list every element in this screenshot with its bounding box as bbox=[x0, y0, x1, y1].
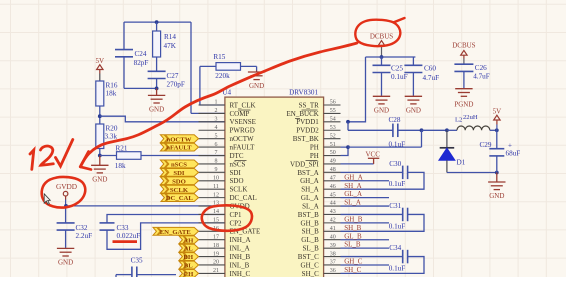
resistor R16 bbox=[96, 81, 104, 106]
svg-text:C60: C60 bbox=[424, 64, 436, 72]
net flag SDO bbox=[160, 177, 198, 186]
svg-text:BST_BK: BST_BK bbox=[293, 135, 319, 143]
wire pin13 GVDD bbox=[66, 205, 225, 207]
annotation arrowhead bbox=[80, 152, 91, 170]
wire C60 bottom lead bbox=[412, 73, 414, 96]
capacitor C35 bbox=[132, 267, 137, 278]
wire net GH_A bbox=[341, 180, 390, 182]
wire D1 gnd rail bbox=[447, 172, 497, 174]
svg-text:0.1uF: 0.1uF bbox=[391, 73, 408, 81]
svg-text:3: 3 bbox=[215, 117, 218, 123]
svg-text:SDO: SDO bbox=[230, 177, 244, 185]
svg-text:52: 52 bbox=[330, 133, 336, 139]
wire pin1 RT_CLK bbox=[200, 66, 225, 105]
svg-text:C31: C31 bbox=[389, 202, 401, 210]
wire R14-C27 bbox=[156, 57, 158, 71]
wire pin49 VDD_SPI bbox=[341, 163, 374, 165]
svg-text:47K: 47K bbox=[164, 42, 177, 50]
svg-text:PGND: PGND bbox=[454, 101, 473, 109]
svg-text:2.2uF: 2.2uF bbox=[76, 232, 93, 240]
svg-text:AL: AL bbox=[184, 246, 194, 253]
svg-text:15: 15 bbox=[213, 218, 219, 224]
svg-text:GH_A: GH_A bbox=[344, 173, 363, 181]
wire R15 left bbox=[200, 65, 216, 67]
wire C60 top lead bbox=[412, 57, 414, 65]
annotation 12V handwriting bbox=[30, 140, 73, 170]
svg-text:8: 8 bbox=[215, 159, 218, 165]
svg-text:SCLK: SCLK bbox=[230, 186, 248, 194]
wire C32 bottom lead bbox=[65, 230, 67, 248]
wire 5V to R16 bbox=[99, 74, 101, 82]
annotation circle CP1 CP2 bbox=[202, 205, 252, 231]
wire R15 to gnd bbox=[256, 66, 258, 70]
svg-text:0.1uF: 0.1uF bbox=[389, 264, 406, 272]
svg-text:SH_A: SH_A bbox=[301, 186, 319, 194]
wire L2 to 5V node bbox=[490, 129, 497, 131]
svg-text:D1: D1 bbox=[457, 158, 466, 166]
svg-text:SDI: SDI bbox=[173, 170, 185, 177]
wire GVDD nub bbox=[65, 196, 67, 200]
svg-text:GH_C: GH_C bbox=[344, 258, 363, 266]
svg-text:nOCTW: nOCTW bbox=[166, 136, 191, 143]
svg-text:DCBUS: DCBUS bbox=[370, 33, 393, 41]
svg-text:SDO: SDO bbox=[172, 178, 186, 185]
svg-text:PVDD1: PVDD1 bbox=[296, 118, 319, 126]
svg-text:4.7uF: 4.7uF bbox=[473, 73, 490, 81]
svg-text:53: 53 bbox=[330, 125, 336, 131]
pin stubs U4 bbox=[199, 105, 341, 273]
svg-text:270pF: 270pF bbox=[167, 80, 185, 88]
capacitor C27 bbox=[148, 71, 166, 78]
svg-text:GL_A: GL_A bbox=[344, 190, 362, 198]
svg-text:51: 51 bbox=[330, 142, 336, 148]
power DCBUS main bbox=[378, 41, 384, 46]
svg-text:nSCS: nSCS bbox=[230, 160, 246, 168]
svg-text:R15: R15 bbox=[213, 53, 225, 61]
svg-text:47: 47 bbox=[330, 175, 336, 181]
wire net SL_A bbox=[341, 205, 390, 207]
svg-text:nSCS: nSCS bbox=[171, 162, 187, 169]
power 5V left bbox=[97, 65, 103, 70]
svg-text:GND: GND bbox=[374, 107, 389, 115]
junction pin54 bbox=[346, 120, 350, 124]
power VCC bbox=[368, 158, 379, 164]
svg-text:48: 48 bbox=[330, 167, 336, 173]
power DCBUS C26 bbox=[461, 50, 467, 55]
wire R20 bottom bbox=[99, 149, 101, 156]
wire C35 right bbox=[137, 274, 176, 276]
svg-text:4.7uF: 4.7uF bbox=[423, 74, 440, 82]
wire PH rail bbox=[348, 146, 422, 148]
svg-text:INH_B: INH_B bbox=[230, 253, 251, 261]
svg-text:SS_TR: SS_TR bbox=[299, 101, 320, 109]
capacitor C31 bbox=[403, 208, 408, 222]
capacitor C33 bbox=[100, 223, 115, 230]
net flag AH bbox=[179, 236, 199, 245]
wire R16-R20 bbox=[99, 106, 101, 124]
junction C29 gnd bbox=[495, 171, 499, 175]
svg-text:C24: C24 bbox=[135, 50, 147, 58]
wire pin53 to C28 bbox=[348, 129, 393, 131]
wire bottom loop bbox=[124, 87, 157, 89]
wire C26 bottom lead bbox=[463, 71, 465, 88]
power port GVDD bbox=[56, 182, 77, 196]
svg-text:GH_B: GH_B bbox=[301, 219, 320, 227]
svg-text:GND: GND bbox=[58, 259, 73, 267]
wire C35 left bbox=[116, 274, 132, 276]
svg-text:CP2: CP2 bbox=[230, 219, 243, 227]
junction 5V out bbox=[495, 128, 499, 132]
inductor L2 bbox=[457, 126, 490, 130]
svg-text:VDD_SPI: VDD_SPI bbox=[290, 160, 319, 168]
ground under C27 bbox=[148, 88, 165, 103]
svg-text:EN_BUCK: EN_BUCK bbox=[287, 110, 319, 118]
svg-text:DTC: DTC bbox=[230, 152, 244, 160]
svg-text:L2: L2 bbox=[455, 116, 462, 123]
svg-text:43: 43 bbox=[330, 209, 336, 215]
svg-text:CP1: CP1 bbox=[230, 211, 243, 219]
svg-text:1: 1 bbox=[215, 100, 218, 106]
capacitor C26 bbox=[454, 64, 473, 71]
net flag SCLK bbox=[160, 185, 198, 194]
power 5V right bbox=[494, 115, 500, 120]
svg-text:17: 17 bbox=[213, 234, 219, 240]
wire C28 to node bbox=[398, 129, 422, 131]
wire C27 bottom lead bbox=[156, 79, 158, 89]
pin names U4 bbox=[230, 101, 320, 277]
svg-text:nOCTW: nOCTW bbox=[230, 135, 255, 143]
svg-text:22uH: 22uH bbox=[463, 114, 478, 121]
svg-text:C26: C26 bbox=[475, 64, 487, 72]
wire net GL_B bbox=[341, 239, 390, 241]
net flag BH bbox=[179, 253, 199, 262]
wire pin54-53 bbox=[347, 122, 349, 131]
resistor R14 bbox=[153, 31, 161, 57]
svg-text:GL_B: GL_B bbox=[301, 236, 319, 244]
svg-text:PWRGD: PWRGD bbox=[230, 127, 255, 135]
capacitor C29 bbox=[489, 149, 504, 156]
svg-text:SL_B: SL_B bbox=[302, 245, 319, 253]
wire C24 top lead bbox=[123, 22, 125, 49]
svg-text:2: 2 bbox=[215, 108, 218, 114]
svg-text:C30: C30 bbox=[389, 160, 401, 168]
resistor R20 bbox=[96, 124, 104, 149]
annotation long red arrow line bbox=[80, 43, 357, 167]
wire R15 right bbox=[241, 65, 257, 67]
net flag nFAULT bbox=[160, 143, 198, 152]
junction R20 R21 bbox=[98, 154, 102, 158]
wire BST to C34 bbox=[341, 256, 403, 258]
wire BST to C30 bbox=[341, 171, 403, 173]
svg-text:36: 36 bbox=[330, 268, 336, 274]
svg-text:INL_A: INL_A bbox=[230, 245, 250, 253]
capacitor C60 bbox=[404, 65, 422, 72]
net flag SDI bbox=[160, 168, 198, 177]
ground under R15 bbox=[248, 71, 265, 80]
svg-text:50: 50 bbox=[330, 150, 336, 156]
svg-text:BL: BL bbox=[184, 263, 193, 270]
svg-text:SH_C: SH_C bbox=[302, 270, 319, 277]
pin name overlines bbox=[235, 110, 318, 161]
net flag BL bbox=[179, 261, 199, 270]
junction R14 top bbox=[155, 20, 159, 24]
svg-text:SDI: SDI bbox=[230, 169, 242, 177]
svg-text:55: 55 bbox=[330, 108, 336, 114]
svg-text:SL_A: SL_A bbox=[302, 202, 319, 210]
svg-text:56: 56 bbox=[330, 100, 336, 106]
svg-text:AH: AH bbox=[183, 237, 194, 244]
annotation circle GVDD bbox=[42, 177, 86, 208]
svg-text:12: 12 bbox=[213, 192, 219, 198]
svg-text:6: 6 bbox=[215, 142, 218, 148]
wire 5V nub bbox=[99, 70, 101, 74]
capacitor C34 bbox=[403, 250, 408, 264]
svg-text:R21: R21 bbox=[116, 144, 128, 152]
svg-text:18: 18 bbox=[213, 243, 219, 249]
wire pin14 CP1 bbox=[107, 215, 225, 224]
ground PGND bbox=[455, 89, 472, 97]
svg-text:BST_A: BST_A bbox=[297, 169, 318, 177]
svg-text:GND: GND bbox=[149, 106, 164, 114]
net flag EN_GATE bbox=[153, 227, 199, 236]
wire net GH_C bbox=[341, 264, 390, 266]
svg-text:R20: R20 bbox=[106, 124, 118, 132]
capacitor C24 bbox=[115, 50, 133, 57]
svg-text:C33: C33 bbox=[117, 224, 129, 232]
junction divider bbox=[98, 114, 102, 118]
svg-text:CH: CH bbox=[183, 271, 194, 277]
net flag AL bbox=[179, 244, 199, 253]
svg-text:SH_B: SH_B bbox=[344, 224, 361, 232]
svg-text:GND: GND bbox=[406, 107, 421, 115]
svg-text:GND: GND bbox=[92, 176, 107, 184]
svg-text:C34: C34 bbox=[389, 244, 401, 252]
svg-text:GVDD: GVDD bbox=[56, 182, 77, 191]
wire DCBUS C26 nub bbox=[463, 55, 465, 58]
svg-text:nFAULT: nFAULT bbox=[166, 145, 192, 152]
mouse cursor bbox=[44, 194, 50, 205]
svg-text:C32: C32 bbox=[76, 224, 88, 232]
svg-text:BST_C: BST_C bbox=[298, 253, 319, 261]
wire to L2 bbox=[447, 129, 457, 131]
ground under divider bbox=[91, 156, 108, 173]
wire pin15 CP2 bbox=[107, 223, 225, 249]
svg-text:42: 42 bbox=[330, 218, 336, 224]
svg-text:14: 14 bbox=[213, 209, 219, 215]
wire net GH_B bbox=[341, 222, 390, 224]
junction C27 gnd bbox=[155, 87, 159, 91]
wire PH riser bbox=[421, 130, 423, 147]
resistor R21 bbox=[117, 152, 142, 160]
svg-text:82pF: 82pF bbox=[134, 59, 149, 67]
resistor R15 bbox=[216, 63, 241, 71]
junction D1 bbox=[445, 128, 449, 132]
ground under C25 bbox=[373, 96, 390, 104]
annotation circle DCBUS bbox=[355, 18, 404, 46]
svg-text:49: 49 bbox=[330, 159, 336, 165]
svg-text:DC_CAL: DC_CAL bbox=[166, 195, 194, 202]
svg-text:DRV8301: DRV8301 bbox=[289, 88, 318, 96]
wire 5V right stem bbox=[496, 125, 498, 131]
red underline annotation bbox=[113, 240, 138, 243]
svg-text:VSENSE: VSENSE bbox=[230, 118, 256, 126]
svg-text:19: 19 bbox=[213, 251, 219, 257]
svg-text:PVDD2: PVDD2 bbox=[296, 127, 319, 135]
wire 5V right nub bbox=[496, 120, 498, 125]
wire C31 loop bbox=[341, 214, 425, 231]
svg-text:54: 54 bbox=[330, 117, 336, 123]
svg-text:SCLK: SCLK bbox=[170, 187, 189, 194]
svg-text:220k: 220k bbox=[215, 72, 230, 80]
svg-text:44: 44 bbox=[330, 201, 336, 207]
ground under C60 bbox=[405, 96, 422, 104]
svg-text:SH_B: SH_B bbox=[302, 228, 319, 236]
net flag DC_CAL bbox=[161, 194, 199, 203]
svg-text:C28: C28 bbox=[389, 116, 401, 124]
svg-text:4: 4 bbox=[215, 125, 218, 131]
junction DCBUS bbox=[380, 55, 384, 59]
capacitor C28 bbox=[393, 124, 398, 138]
wire C35 corner bbox=[115, 275, 117, 277]
svg-text:DC_CAL: DC_CAL bbox=[230, 194, 257, 202]
svg-text:VCC: VCC bbox=[365, 150, 380, 158]
diode D1 bbox=[439, 130, 455, 172]
svg-text:+: + bbox=[508, 142, 512, 150]
svg-text:R16: R16 bbox=[106, 81, 118, 89]
svg-text:38: 38 bbox=[330, 251, 336, 257]
wire pin2 COMP bbox=[191, 112, 225, 114]
svg-text:BH: BH bbox=[183, 254, 193, 261]
junction C28 PH bbox=[420, 128, 424, 132]
ground right bbox=[488, 173, 505, 190]
wire net SL_B bbox=[341, 247, 390, 249]
net flag nSCS bbox=[160, 160, 198, 169]
svg-text:C27: C27 bbox=[167, 72, 179, 80]
svg-text:RT_CLK: RT_CLK bbox=[230, 101, 256, 109]
svg-text:7: 7 bbox=[215, 150, 218, 156]
wire PH pins join bbox=[341, 147, 349, 155]
svg-text:PH: PH bbox=[310, 144, 319, 152]
svg-text:EN_GATE: EN_GATE bbox=[160, 229, 192, 236]
wire DCBUS to PVDD bbox=[348, 57, 366, 122]
wire pin7 DTC bbox=[141, 155, 225, 157]
wire DCBUS stem bbox=[381, 46, 383, 57]
svg-text:20: 20 bbox=[213, 260, 219, 266]
svg-text:GND: GND bbox=[489, 192, 504, 200]
svg-text:5V: 5V bbox=[96, 57, 105, 65]
svg-text:18k: 18k bbox=[115, 162, 126, 170]
wire pin3 VSENSE bbox=[100, 116, 225, 122]
svg-text:0.022uF: 0.022uF bbox=[117, 232, 141, 240]
junction PH bbox=[346, 145, 350, 149]
capacitor C30 bbox=[403, 166, 408, 180]
ground under C32 bbox=[57, 248, 74, 256]
wire C34 loop bbox=[341, 257, 425, 274]
svg-text:5V: 5V bbox=[493, 107, 502, 115]
net flag nOCTW bbox=[160, 135, 198, 144]
svg-text:COMP: COMP bbox=[230, 110, 250, 118]
svg-text:BST_B: BST_B bbox=[298, 211, 319, 219]
svg-text:39: 39 bbox=[330, 243, 336, 249]
svg-text:GL_A: GL_A bbox=[301, 194, 319, 202]
wire COMP top bbox=[124, 21, 191, 23]
svg-text:SH_C: SH_C bbox=[344, 266, 361, 274]
svg-text:10: 10 bbox=[213, 175, 219, 181]
net flag CH bbox=[179, 270, 199, 279]
wire C29 bottom lead bbox=[496, 156, 498, 173]
capacitor C25 bbox=[373, 65, 391, 72]
svg-text:11: 11 bbox=[213, 184, 219, 190]
svg-text:PH: PH bbox=[310, 152, 319, 160]
svg-text:C29: C29 bbox=[480, 141, 492, 149]
svg-text:21: 21 bbox=[213, 268, 219, 274]
pin numbers U4 bbox=[213, 100, 336, 274]
wire to R21 bbox=[100, 155, 117, 157]
wire C25 bottom lead bbox=[381, 73, 383, 96]
svg-text:nFAULT: nFAULT bbox=[230, 144, 256, 152]
svg-text:GH_C: GH_C bbox=[301, 261, 320, 269]
svg-text:SL_B: SL_B bbox=[344, 241, 361, 249]
wire to COMP bbox=[190, 22, 192, 113]
wire DCBUS rail bbox=[366, 56, 416, 58]
svg-text:DCBUS: DCBUS bbox=[452, 42, 475, 50]
svg-text:0.1uF: 0.1uF bbox=[389, 180, 406, 188]
wire C29 top lead bbox=[496, 130, 498, 148]
svg-text:SL_A: SL_A bbox=[344, 199, 361, 207]
wire C32 top lead bbox=[65, 206, 67, 223]
svg-text:9: 9 bbox=[215, 167, 218, 173]
wire DCBUS C26 stem bbox=[463, 59, 465, 65]
svg-text:INH_C: INH_C bbox=[230, 270, 251, 277]
wire R14 top lead bbox=[156, 22, 158, 31]
svg-text:68uF: 68uF bbox=[506, 149, 521, 157]
svg-text:40: 40 bbox=[330, 234, 336, 240]
junction GVDD bbox=[64, 204, 68, 208]
svg-text:45: 45 bbox=[330, 192, 336, 198]
svg-text:5: 5 bbox=[215, 133, 218, 139]
svg-text:0.1uF: 0.1uF bbox=[389, 222, 406, 230]
wire node to D1 bbox=[422, 129, 447, 131]
svg-text:46: 46 bbox=[330, 184, 336, 190]
svg-text:GL_B: GL_B bbox=[344, 232, 362, 240]
svg-text:R14: R14 bbox=[164, 33, 176, 41]
svg-text:18k: 18k bbox=[106, 90, 117, 98]
wire net GL_A bbox=[341, 197, 390, 199]
svg-text:GH_B: GH_B bbox=[344, 215, 363, 223]
svg-text:SH_A: SH_A bbox=[344, 182, 362, 190]
capacitor C32 bbox=[57, 223, 75, 230]
IC U4 DRV8301 body bbox=[225, 97, 324, 279]
svg-text:3.3k: 3.3k bbox=[105, 132, 118, 140]
svg-text:41: 41 bbox=[330, 226, 336, 232]
wire GVDD stem bbox=[65, 200, 67, 206]
svg-text:INH_A: INH_A bbox=[230, 236, 251, 244]
svg-text:37: 37 bbox=[330, 260, 336, 266]
svg-text:INL_B: INL_B bbox=[230, 261, 250, 269]
wire BST to C31 bbox=[341, 213, 403, 215]
svg-text:GND: GND bbox=[249, 82, 264, 90]
svg-text:C35: C35 bbox=[131, 256, 143, 264]
wire C24 bottom lead bbox=[123, 57, 125, 89]
wire C30 loop bbox=[341, 172, 425, 189]
svg-text:C25: C25 bbox=[391, 64, 403, 72]
wire C25 top lead bbox=[381, 57, 383, 65]
svg-text:GH_A: GH_A bbox=[300, 177, 319, 185]
